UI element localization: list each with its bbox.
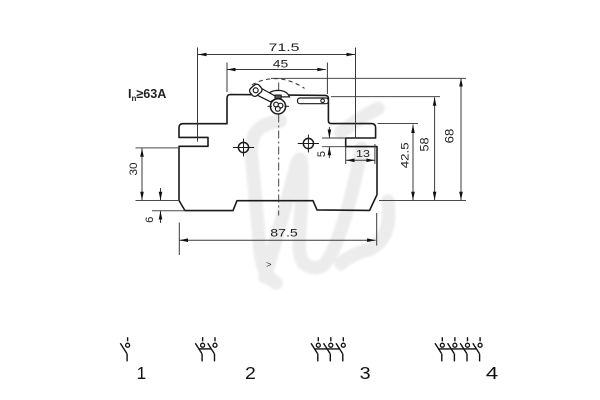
lever shaft [255, 88, 277, 102]
dimension 68 extension line (top, lever arc peak) [271, 77, 466, 79]
dim 45 [227, 63, 327, 95]
terminal circle right [298, 135, 319, 153]
terminal circle left [233, 139, 254, 157]
svg-text:1: 1 [137, 363, 147, 383]
mechanical link bar (4-pole) [438, 348, 476, 350]
dimension 58 extension line (body top) [331, 96, 440, 98]
switch contact pole 2.1 [202, 337, 204, 341]
pole symbol 3 [311, 337, 345, 361]
svg-text:30: 30 [128, 163, 140, 176]
switch contact pole 3.3 [342, 337, 344, 341]
dim 87.5 [179, 213, 376, 255]
pole symbol 1 [120, 337, 129, 361]
switch contact pole 4.3 [467, 337, 469, 341]
dim 58 [434, 97, 436, 200]
switch contact pole 3.1 [317, 337, 319, 341]
pole symbol 4 [435, 337, 482, 361]
dim 6 [160, 188, 162, 200]
lever hub (half-round boss) [267, 90, 290, 97]
svg-text:4: 4 [486, 363, 499, 383]
pole symbol 2 [195, 337, 217, 361]
dim 13 [346, 159, 375, 161]
switch contact pole 3.2 [330, 337, 332, 341]
dashed lever travel arc [252, 79, 305, 89]
svg-text:58: 58 [418, 137, 432, 151]
bottom shared extension line (device bottom) [379, 200, 466, 202]
DIN slot extension lines left [136, 147, 180, 149]
mechanical link bar (3-pole) [314, 348, 339, 350]
svg-text:71.5: 71.5 [269, 42, 300, 54]
dimension 42.5 extension line (shoulder) [378, 123, 419, 125]
svg-text:68: 68 [443, 128, 457, 143]
screw with tri-wing slot [270, 99, 285, 114]
switch contact pole 4.1 [441, 337, 443, 341]
svg-text:5: 5 [316, 151, 328, 157]
small coupler square [275, 95, 281, 99]
switch contact pole 2.2 [214, 337, 216, 341]
svg-text:3: 3 [360, 363, 371, 383]
svg-text:42.5: 42.5 [399, 142, 411, 168]
svg-text:2: 2 [245, 363, 256, 383]
svg-text:>: > [266, 259, 272, 270]
dim 68 [460, 78, 462, 200]
svg-text:In≥63A: In≥63A [128, 87, 166, 103]
right arm (lever OFF silhouette) [298, 98, 329, 104]
dim 71.5 [198, 48, 356, 142]
mechanical link bar (2-pole) [199, 348, 212, 350]
svg-text:45: 45 [273, 58, 289, 70]
device body outline [179, 95, 377, 211]
switch contact pole 4.4 [479, 337, 481, 341]
switch contact pole 4.2 [454, 337, 456, 341]
vertical dash-dot centerline [278, 83, 280, 216]
lever head (rounded square, tilted) [248, 83, 263, 98]
svg-text:13: 13 [356, 148, 370, 160]
dim 30 [141, 148, 143, 200]
svg-text:87.5: 87.5 [270, 228, 298, 240]
dim 42.5 [412, 125, 414, 201]
dim 5 [322, 137, 346, 139]
svg-text:6: 6 [144, 217, 156, 223]
